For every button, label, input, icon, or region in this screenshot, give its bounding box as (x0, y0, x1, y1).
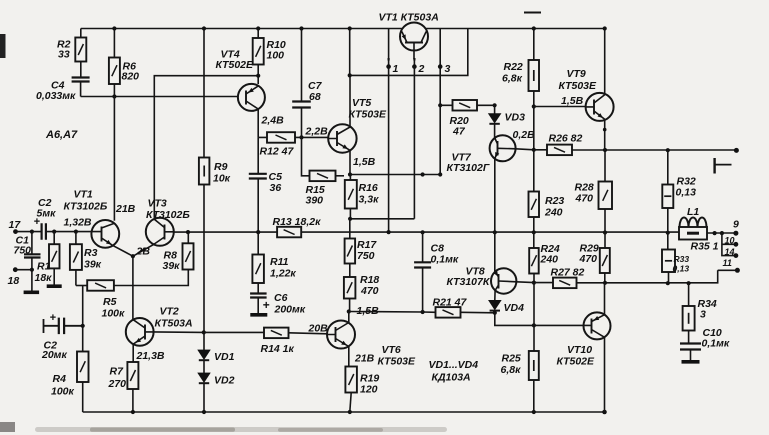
wire pin 2 link to R16/R17 node (350, 218, 414, 220)
wire VT8 emitter to VD4 (494, 291, 496, 301)
resistor R9 (203, 29, 205, 350)
svg-text:21В: 21В (354, 353, 375, 365)
node pins rail left junction (348, 73, 352, 77)
resistor R13 (277, 227, 301, 238)
svg-text:КТ503Е: КТ503Е (559, 80, 598, 92)
svg-text:R23: R23 (545, 195, 564, 207)
svg-text:0,033мк: 0,033мк (36, 90, 76, 102)
scan artifact bottom smear (35, 427, 447, 432)
svg-text:11: 11 (723, 258, 732, 268)
ground C1 (24, 290, 39, 294)
svg-text:VT5: VT5 (352, 97, 371, 109)
pin mark 1 (388, 58, 390, 61)
wire R5/R4 column (82, 286, 84, 352)
svg-text:36: 36 (270, 182, 282, 194)
svg-text:390: 390 (306, 195, 324, 207)
capacitor C8 (422, 232, 424, 312)
svg-text:21,3В: 21,3В (136, 350, 165, 362)
svg-text:КТ502Е: КТ502Е (216, 59, 255, 71)
svg-text:КТ3102Б: КТ3102Б (146, 209, 190, 221)
node output line L1 junction (713, 231, 717, 235)
node main line pin1 junction (387, 230, 391, 234)
svg-text:R26 82: R26 82 (549, 133, 583, 145)
svg-text:VD4: VD4 (504, 302, 525, 314)
svg-text:КТ503Е: КТ503Е (349, 109, 388, 121)
svg-text:1,32В: 1,32В (64, 217, 92, 229)
node top rail R9 junction (202, 26, 206, 30)
svg-text:750: 750 (357, 250, 375, 262)
node VT5 emitter / R16 top (348, 172, 352, 176)
svg-text:R35 1: R35 1 (691, 241, 719, 253)
node top rail R10 junction (256, 26, 260, 30)
resistor R24 (533, 232, 535, 248)
wire top supply rail (81, 28, 605, 30)
node bottom rail VD2 junction (202, 410, 206, 414)
svg-text:470: 470 (575, 193, 594, 205)
svg-text:VD1: VD1 (214, 351, 235, 363)
node R10/VT4-emitter junction (256, 74, 260, 78)
capacitor C2 20mk (electrolytic) (44, 319, 83, 333)
capacitor C2 5mk (42, 223, 46, 240)
wire R24-R25 link (533, 283, 535, 351)
resistor R6 (113, 29, 115, 97)
svg-text:18: 18 (8, 275, 20, 287)
diode VD4 (489, 300, 502, 310)
resistor R26 (547, 145, 572, 156)
transistor VT1 (input diff pair) (91, 220, 119, 248)
resistor R29 (604, 233, 606, 283)
svg-text:820: 820 (122, 71, 140, 83)
resistor R35 (679, 227, 707, 240)
node top rail end at VT9 collector (603, 26, 607, 30)
svg-text:2,4В: 2,4В (261, 115, 285, 127)
svg-text:КД103А: КД103А (432, 372, 471, 384)
wire pin 3 column (439, 29, 441, 175)
svg-text:0,13: 0,13 (673, 264, 690, 274)
svg-text:VT1 КТ503А: VT1 КТ503А (379, 12, 439, 24)
transistor VT5 (328, 124, 356, 152)
capacitor C6 (electrolytic) (257, 283, 259, 294)
capacitor C1 (31, 232, 33, 291)
resistor R20 (440, 104, 494, 106)
node bottom rail R19 junction (348, 410, 352, 414)
resistor R23 (529, 192, 540, 218)
ground R1 (47, 284, 62, 288)
node R27 line / VT10 emitter junction (603, 281, 607, 285)
wire main feedback/output line (174, 231, 737, 234)
node C8 bottom junction (421, 310, 425, 314)
node pin3/R20 junction (438, 103, 442, 107)
resistor R11 (257, 232, 259, 254)
svg-text:3: 3 (700, 309, 706, 321)
resistor R5 (87, 280, 114, 291)
svg-text:R4: R4 (53, 373, 67, 385)
node R26 line / VT9 emitter junction (603, 148, 607, 152)
terminal 11 (735, 268, 740, 273)
svg-text:33: 33 (58, 49, 70, 61)
terminal 10 (734, 242, 739, 247)
svg-text:270: 270 (108, 378, 127, 390)
capacitor C10 (680, 344, 701, 350)
resistor R19 (345, 367, 357, 393)
wire VT7 collector line with R26 (516, 149, 737, 150)
svg-text:1,5В: 1,5В (561, 95, 584, 107)
svg-text:КТ503Е: КТ503Е (378, 356, 417, 368)
svg-text:100к: 100к (102, 308, 126, 320)
transistor VT9 (586, 93, 614, 121)
node main line R8 junction (186, 230, 190, 234)
svg-text:10: 10 (725, 236, 735, 246)
svg-text:5мк: 5мк (37, 208, 57, 220)
svg-text:6,8к: 6,8к (502, 73, 523, 85)
terminal 14 (734, 253, 739, 258)
resistor R10 (257, 29, 259, 85)
wire VT9 emitter (604, 119, 606, 150)
resistor R12 (258, 136, 328, 138)
chassis mark near output (713, 158, 715, 174)
wire VT6 collector (348, 312, 350, 323)
svg-text:R3: R3 (84, 247, 98, 259)
svg-text:20мк: 20мк (41, 349, 67, 361)
resistor R2 (80, 29, 82, 77)
node R27 line / R33 junction (666, 281, 670, 285)
svg-text:R1: R1 (37, 261, 51, 273)
transistor VT8 (491, 268, 516, 293)
transistor VT3 (input diff pair) (146, 218, 174, 246)
node 1.5V node (VT6 collector) (347, 309, 351, 313)
node VD4/R21 junction (493, 311, 497, 315)
wire 1.5V line to VD4 (349, 312, 495, 313)
wire VT7 emitter to main line to VT8 (494, 159, 496, 272)
wire VD1-VD2 link (203, 361, 205, 373)
svg-text:VD1...VD4: VD1...VD4 (429, 359, 479, 371)
transistor VT4 (238, 84, 265, 111)
svg-text:240: 240 (544, 207, 563, 219)
svg-text:3: 3 (445, 63, 451, 75)
wire VT5 emitter line to C8/pin3 (350, 174, 440, 176)
svg-text:0,1мк: 0,1мк (702, 338, 730, 350)
wire VT10 emitter (604, 283, 606, 315)
resistor R14 (204, 331, 264, 333)
svg-text:100к: 100к (51, 386, 75, 398)
svg-text:39к: 39к (84, 259, 102, 271)
capacitor C4 (72, 78, 90, 82)
node main line R32/R33 junction (666, 231, 670, 235)
svg-text:VT6: VT6 (382, 344, 401, 356)
node top rail C7 junction (299, 26, 303, 30)
diode VD3 (488, 114, 501, 124)
wire VD3 column (494, 105, 496, 138)
node R3 top junction (74, 230, 78, 234)
node R16/R17 junction (348, 217, 352, 221)
wire 2V node to VT2 collector (132, 256, 134, 320)
scan artifact left edge blob (0, 34, 6, 58)
node bottom rail R25 junction (532, 410, 536, 414)
wire R22-R23 link (533, 107, 535, 192)
node main line C8 junction (421, 230, 425, 234)
resistor R22 (533, 29, 535, 107)
node main line C5/R11 junction (256, 230, 260, 234)
node terminals 10/14 bus junction (720, 231, 724, 235)
svg-text:21В: 21В (115, 203, 136, 215)
svg-text:100: 100 (267, 50, 285, 62)
svg-text:2В: 2В (136, 246, 151, 258)
node VT8 collector junction (532, 281, 536, 285)
svg-text:47: 47 (452, 126, 466, 138)
svg-text:R25: R25 (502, 353, 521, 365)
wire VT4 emitter / VT3 collector link (154, 76, 258, 218)
svg-text:VD3: VD3 (505, 112, 526, 124)
svg-text:R14 1к: R14 1к (261, 343, 295, 355)
resistor R4 (77, 352, 89, 383)
svg-text:КТ3102Б: КТ3102Б (64, 201, 108, 213)
node C2 20mk junction (81, 324, 85, 328)
svg-text:L1: L1 (687, 206, 699, 218)
svg-text:18к: 18к (35, 272, 53, 284)
svg-text:2: 2 (418, 63, 425, 75)
scan artifact dash above R22 (524, 12, 541, 14)
svg-text:VT2: VT2 (160, 306, 179, 318)
svg-text:R12 47: R12 47 (260, 146, 295, 158)
wire C7 branch to R15 (302, 137, 310, 175)
wire VT9 collector (604, 29, 606, 95)
svg-text:+: + (50, 312, 57, 324)
svg-text:КТ3107К: КТ3107К (447, 276, 491, 288)
svg-text:750: 750 (14, 245, 32, 257)
wire pin 2 column (413, 50, 415, 219)
node R26 line / R32 junction (666, 148, 670, 152)
transistor VT1 (driver, top) (400, 23, 428, 51)
inductor L1 (680, 218, 707, 228)
resistor R27 (553, 278, 577, 289)
wire input line (16, 231, 92, 233)
wire VT8 collector line with R27 (516, 270, 737, 283)
svg-text:14: 14 (725, 247, 735, 257)
svg-text:39к: 39к (163, 260, 181, 272)
resistor R17 (349, 219, 351, 277)
node VT2 base / VD chain junction (202, 330, 206, 334)
svg-text:R33: R33 (674, 254, 690, 264)
node diff pair emitters 2V (131, 254, 135, 258)
transistor VT7 (490, 135, 516, 161)
svg-text:R11: R11 (270, 256, 289, 268)
node R24/R25/VT10-base junction (532, 323, 536, 327)
svg-text:VT3: VT3 (148, 198, 167, 210)
svg-text:R21 47: R21 47 (433, 297, 468, 309)
wire VT5 collector to pins rail (349, 75, 351, 127)
resistor R32 (667, 150, 669, 233)
resistor R16 (349, 175, 351, 219)
svg-text:0,2В: 0,2В (513, 129, 536, 141)
node bottom rail R7 junction (131, 410, 135, 414)
diode VD2 (198, 373, 210, 383)
svg-text:КТ502Е: КТ502Е (557, 356, 596, 368)
svg-text:VD2: VD2 (214, 375, 235, 387)
ground C10 (682, 360, 700, 364)
wire VT10 collector (604, 337, 606, 412)
node terminal 18 junction (30, 268, 34, 272)
pin 3 dot (438, 64, 443, 69)
input terminal 18 (13, 267, 18, 272)
node top rail R22 junction (532, 26, 536, 30)
wire pins rail (350, 29, 468, 76)
node R12/C7 junction (299, 135, 303, 139)
resistor R15 (310, 171, 336, 182)
pin 1 dot (386, 64, 391, 69)
svg-text:R5: R5 (103, 296, 117, 308)
node R22/VT9 base junction (532, 104, 536, 108)
svg-text:+: + (263, 298, 270, 312)
wire VT4 base line (81, 96, 238, 98)
wire VT2 emitter (132, 344, 134, 362)
ground C6 (250, 313, 267, 317)
svg-text:R9: R9 (214, 161, 228, 173)
node top rail R6 junction (112, 26, 116, 30)
transistor VT6 (327, 321, 355, 349)
pin mark 2 (413, 58, 415, 61)
svg-text:VT1: VT1 (74, 189, 93, 201)
node input C1 junction (30, 230, 34, 234)
wire VD4 to VT10 base (495, 313, 584, 326)
node R20/VD3 junction (493, 103, 497, 107)
svg-text:C6: C6 (274, 292, 288, 304)
resistor R8 (187, 232, 189, 243)
svg-text:R16: R16 (359, 182, 378, 194)
node C8 top junction (421, 172, 425, 176)
node main line VT7/VT8 junction (493, 230, 497, 234)
wire bottom ground rail (83, 411, 605, 413)
resistor R34 (688, 283, 690, 343)
wire R3 to R5 (76, 285, 87, 287)
svg-text:20В: 20В (308, 323, 329, 335)
node top rail VT5 collector junction (348, 26, 352, 30)
svg-text:1,5В: 1,5В (353, 156, 376, 168)
node main line R23/R24 junction (532, 230, 536, 234)
svg-text:R7: R7 (110, 366, 125, 378)
svg-text:R27 82: R27 82 (551, 267, 585, 279)
svg-text:68: 68 (309, 91, 321, 103)
resistor R21 (436, 307, 461, 318)
svg-text:200мк: 200мк (274, 304, 306, 316)
svg-text:3,3к: 3,3к (359, 194, 380, 206)
svg-text:1: 1 (393, 63, 399, 75)
svg-text:R13 18,2к: R13 18,2к (273, 216, 322, 228)
input terminal 17 (13, 229, 18, 234)
transistor VT10 (584, 312, 611, 339)
terminal 9 (733, 231, 738, 236)
node R6/C4/VT1-collector junction (112, 94, 116, 98)
node main line R28/R29 junction (603, 230, 607, 234)
svg-text:0,13: 0,13 (676, 187, 697, 199)
wire VT2 base line (154, 331, 204, 334)
svg-text:VT10: VT10 (567, 344, 592, 356)
svg-text:120: 120 (360, 384, 378, 396)
svg-text:1,22к: 1,22к (270, 268, 296, 280)
diode VD1 (198, 350, 210, 360)
wire terminals 10 and 14 bus (722, 233, 736, 256)
wire terminal 18 link (15, 269, 32, 271)
wire VT5 emitter (349, 150, 351, 174)
node bottom rail end VT10 collector (602, 410, 607, 415)
capacitor C5 (249, 174, 267, 179)
node VT7 collector junction (532, 148, 536, 152)
transistor VT2 (126, 318, 154, 346)
resistor R25 (529, 351, 539, 380)
svg-text:КТ503А: КТ503А (155, 318, 193, 330)
node VT9 emitter blob (603, 128, 607, 132)
svg-text:VT9: VT9 (567, 68, 586, 80)
pin 2 dot (412, 64, 417, 69)
svg-text:А6,А7: А6,А7 (45, 129, 78, 141)
svg-text:R22: R22 (504, 61, 523, 73)
resistor R1 (53, 232, 55, 285)
wire VT6 emitter (348, 347, 350, 367)
wire pin 1 column (388, 29, 390, 233)
svg-text:240: 240 (540, 254, 559, 266)
wire VT1 collector (113, 97, 115, 221)
resistor R3 (75, 232, 77, 286)
resistor R28 (604, 150, 606, 233)
svg-text:9: 9 (733, 219, 739, 231)
resistor R18 (344, 277, 356, 299)
svg-text:10к: 10к (213, 173, 231, 185)
svg-text:470: 470 (579, 253, 598, 265)
resistor R33 (667, 233, 670, 284)
node pin3 column bottom corner (438, 172, 442, 176)
terminal dot R26 line end (734, 148, 739, 153)
wire R5 to R8 bottom (114, 270, 188, 286)
svg-text:470: 470 (360, 285, 379, 297)
svg-text:6,8к: 6,8к (501, 364, 522, 376)
capacitor C7 (301, 29, 303, 138)
svg-text:КТ3102Г: КТ3102Г (447, 162, 490, 174)
svg-text:0,1мк: 0,1мк (431, 254, 459, 266)
wire VT9 base line (534, 106, 586, 108)
node R27 line / R34 junction (687, 281, 691, 285)
node R1 top junction (52, 230, 56, 234)
svg-text:2,2В: 2,2В (305, 126, 329, 138)
resistor R7 (127, 362, 138, 389)
svg-text:17: 17 (9, 219, 22, 231)
